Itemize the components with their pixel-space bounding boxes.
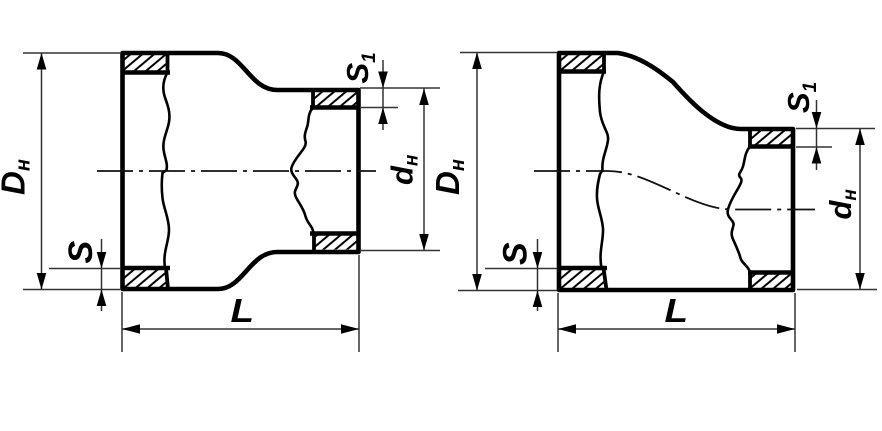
left dn top arrowhead (419, 89, 429, 106)
left reducer centerline (97, 170, 376, 172)
left reducer bottom-right weld section hatch (314, 236, 358, 250)
right L dimension line (558, 328, 795, 330)
right reducer large-end break line (597, 72, 608, 269)
right Dn top arrowhead (472, 53, 482, 70)
right reducer bottom-right bevel edge (748, 273, 752, 291)
right reducer bottom-left bevel edge (604, 268, 607, 290)
left L left arrowhead (122, 324, 140, 333)
left reducer small-end break line (291, 108, 313, 234)
right reducer bottom-left weld section hatch (559, 270, 605, 288)
left Dn top extension line (23, 52, 120, 54)
left dn dimension line (423, 89, 425, 251)
left dn bottom extension line (360, 250, 440, 252)
left S1 arrow line (382, 60, 384, 130)
right S upper arrowhead (533, 252, 543, 269)
right L right extension line (794, 293, 796, 352)
right S arrow line (537, 239, 539, 311)
right reducer outline (559, 53, 793, 290)
right L left extension line (557, 293, 559, 352)
left reducer bottom-right inner surface line (310, 231, 359, 235)
left reducer bottom-left weld section hatch (123, 270, 168, 287)
left S1 upper extension line (360, 87, 440, 89)
right L right arrowhead (777, 324, 795, 333)
left S upper arrowhead (97, 252, 107, 269)
right Dn bottom extension line (458, 290, 557, 292)
right reducer top-left bevel edge (602, 53, 606, 72)
right S1 upper extension line (796, 128, 875, 130)
right dn dimension line (859, 129, 861, 290)
left reducer bottom-left bevel edge (166, 268, 168, 289)
left reducer large-end break line (162, 73, 170, 269)
left S1 upper arrowhead (378, 72, 388, 89)
left S1 lower arrowhead (378, 108, 388, 125)
right reducer top-left weld section hatch (559, 55, 604, 70)
right S top extension line (485, 268, 557, 270)
left reducer bottom-right bevel edge (312, 234, 316, 253)
right reducer bottom-left inner surface line (557, 266, 607, 270)
right S1 lower arrowhead (812, 147, 822, 164)
right reducer bottom-right weld section hatch (750, 275, 793, 289)
left Dn bottom arrowhead (37, 273, 47, 290)
right L left arrowhead (558, 324, 576, 333)
right reducer centerline (534, 171, 815, 210)
right reducer top-right inner surface line (748, 144, 795, 148)
right reducer small-end break line (728, 147, 750, 273)
right S lower arrowhead (533, 291, 543, 308)
right reducer top-right weld section hatch (750, 131, 793, 145)
left reducer top-right inner surface line (310, 105, 359, 109)
svg-text:L: L (231, 292, 255, 329)
left reducer top-left weld section hatch (123, 55, 168, 71)
right S1 lower extension line (796, 146, 832, 148)
right reducer bottom-right inner surface line (748, 270, 795, 274)
left L right arrowhead (341, 324, 359, 333)
left Dn dimension line (41, 53, 43, 290)
left S lower arrowhead (97, 290, 107, 307)
left reducer top-right bevel edge (311, 90, 315, 108)
left Dn bottom extension line (23, 289, 120, 291)
left L left extension line (121, 292, 123, 352)
right dn top arrowhead (855, 129, 865, 146)
left L dimension line (122, 328, 359, 330)
left S top extension line (49, 268, 120, 270)
right reducer top-left inner surface line (557, 69, 606, 73)
svg-text:L: L (665, 292, 689, 329)
left S1 lower extension line (360, 107, 398, 109)
right Dn dimension line (476, 53, 478, 291)
right reducer top-right bevel edge (748, 129, 752, 147)
right dn bottom extension line (797, 289, 877, 291)
left reducer top-left bevel edge (166, 53, 170, 73)
left reducer top-left inner surface line (121, 70, 171, 74)
svg-text:S: S (62, 241, 100, 264)
left reducer outline (123, 53, 359, 289)
left Dn top arrowhead (37, 53, 47, 70)
left reducer top-right weld section hatch (313, 92, 358, 106)
right S1 arrow line (816, 100, 818, 170)
right dn bottom arrowhead (855, 273, 865, 290)
left reducer bottom-left inner surface line (121, 266, 171, 270)
right Dn bottom arrowhead (472, 274, 482, 291)
svg-text:S: S (497, 242, 535, 265)
right Dn top extension line (460, 52, 557, 54)
right S1 upper arrowhead (812, 112, 822, 129)
left dn bottom arrowhead (419, 234, 429, 251)
left L right extension line (358, 255, 360, 352)
left S arrow line (101, 239, 103, 311)
